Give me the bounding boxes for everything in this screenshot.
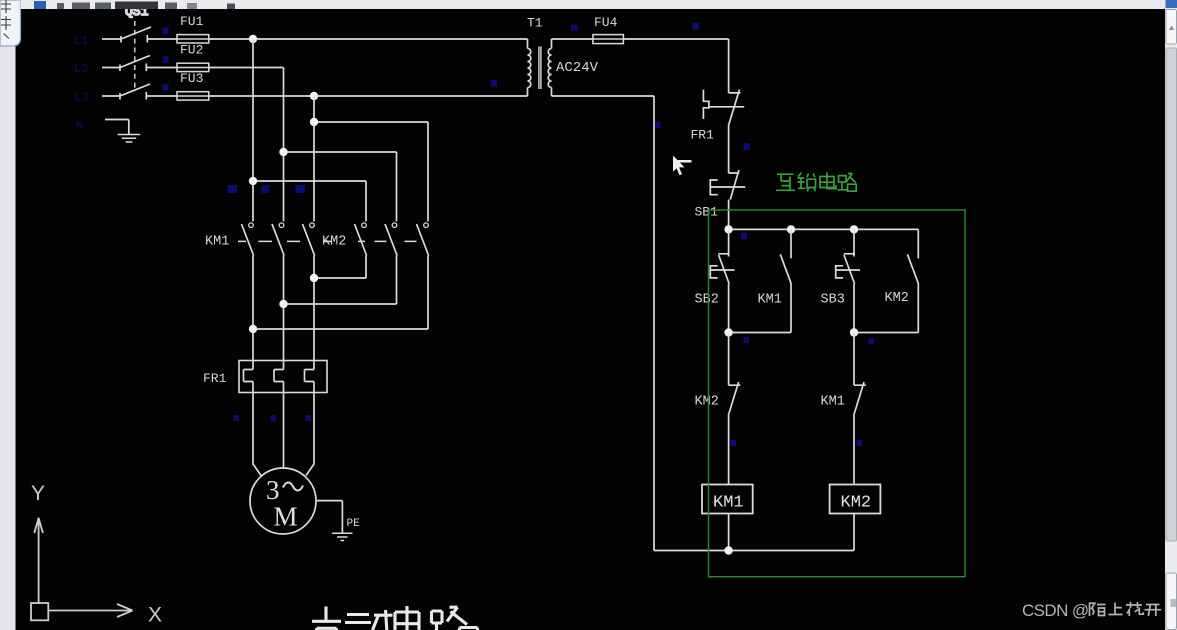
svg-text:KM2: KM2 <box>841 494 872 513</box>
contact KM1 aux NO <box>729 229 792 332</box>
svg-text:X: X <box>148 604 162 627</box>
contactor KM2 main contacts <box>355 223 429 256</box>
svg-text:KM1: KM1 <box>713 494 744 513</box>
svg-text:KM1: KM1 <box>758 293 782 308</box>
svg-text:PE: PE <box>347 518 361 530</box>
node dot SB2 bottom <box>724 328 732 336</box>
svg-text:M: M <box>274 502 298 532</box>
wire coil KM1 to bottom bus <box>728 514 730 551</box>
title text 点动电路 <box>312 606 478 630</box>
coil KM1 <box>702 485 753 514</box>
svg-text:L1: L1 <box>74 34 88 48</box>
wire branch L1 to KM2 pole4 <box>253 181 366 221</box>
transformer T1 secondary <box>548 39 551 96</box>
svg-text:FU2: FU2 <box>180 43 203 58</box>
svg-text:KM1: KM1 <box>205 235 229 250</box>
wire coil KM2 to bottom bus <box>853 514 855 551</box>
fuse FU2 <box>177 63 209 71</box>
grip marks (blue) <box>163 23 875 446</box>
svg-text:KM2: KM2 <box>885 291 909 306</box>
wire L2 to column2 <box>209 67 284 69</box>
svg-text:L2: L2 <box>74 62 88 76</box>
wire KM2 pole4 crossover to col3 <box>314 256 366 279</box>
wire secondary bottom return <box>552 96 655 551</box>
pushbutton SB3 <box>836 229 860 332</box>
svg-text:KM1: KM1 <box>821 395 845 410</box>
svg-text:CSDN @: CSDN @ <box>1022 601 1089 620</box>
svg-text:AC24V: AC24V <box>556 60 599 76</box>
svg-text:Y: Y <box>31 482 45 505</box>
svg-text:KM2: KM2 <box>695 395 719 410</box>
wire column1 <box>252 39 254 221</box>
svg-text:SB1: SB1 <box>695 205 719 220</box>
thermal relay contact FR1 <box>703 90 744 125</box>
contact KM1 interlock NC <box>854 333 866 485</box>
svg-text:3: 3 <box>266 475 280 505</box>
wire secondary top to FU4 <box>552 38 593 40</box>
mouse cursor <box>673 156 692 176</box>
svg-text:FU4: FU4 <box>594 15 618 30</box>
UCS origin square <box>31 603 48 620</box>
UI toolbar strip <box>21 0 1166 9</box>
disconnect switch QS1 <box>102 21 177 100</box>
watermark 陌上花开 <box>1090 602 1162 616</box>
wire KM2 pole5 crossover to col2 <box>284 256 397 305</box>
svg-text:SB2: SB2 <box>695 293 719 308</box>
bottom bus wire <box>654 550 854 552</box>
pushbutton SB2 <box>710 229 734 332</box>
mechanical link dashes <box>238 240 417 242</box>
wire col1 below contact <box>252 256 254 361</box>
wire motor PE <box>316 501 342 534</box>
ground PE <box>332 533 353 540</box>
wire KM2 pole6 crossover to col1 <box>253 256 428 330</box>
annotation green text 互锁电路 <box>776 172 856 191</box>
UCS icon X axis <box>48 604 132 617</box>
wire L3 to transformer <box>209 95 528 97</box>
transformer T1 primary <box>528 39 531 96</box>
node dot L3/col3 <box>310 92 318 100</box>
svg-text:FR1: FR1 <box>691 128 715 143</box>
svg-text:FU3: FU3 <box>180 71 203 86</box>
fuse FU4 <box>593 35 624 44</box>
wire column2 <box>283 68 285 222</box>
annotation green box 互锁电路 region <box>709 210 966 577</box>
svg-text:SB3: SB3 <box>821 293 845 308</box>
wire branch L3 to KM2 pole6 <box>314 122 428 221</box>
thermal overload FR1 block <box>239 361 327 393</box>
contact KM2 aux NO <box>854 229 919 332</box>
pushbutton SB1 <box>710 170 746 200</box>
svg-text:L3: L3 <box>74 91 88 105</box>
wire L1 to transformer <box>209 38 528 40</box>
wire FU4 to control branch <box>623 39 728 93</box>
wire col2 below contact <box>283 256 285 361</box>
wire SB1 to bus <box>728 200 730 230</box>
svg-text:FU1: FU1 <box>180 14 204 29</box>
UI scrollbar <box>1165 0 1177 630</box>
svg-text:N: N <box>76 119 83 133</box>
contactor KM1 main contacts <box>242 223 315 256</box>
wire branch L2 to KM2 pole5 <box>284 152 397 221</box>
UI properties tab <box>0 0 21 46</box>
node dot SB3 bottom <box>850 328 858 336</box>
wire N <box>105 120 129 135</box>
contact KM2 interlock NC <box>729 333 741 485</box>
node dot L1/col1 <box>249 35 257 43</box>
fuse FU3 <box>177 92 209 100</box>
svg-text:T1: T1 <box>527 16 543 31</box>
UI left panel strip <box>0 0 16 630</box>
wire FR1 to SB1 <box>728 125 730 174</box>
wire column3 <box>313 96 315 221</box>
transformer core <box>539 47 541 90</box>
UCS icon Y axis <box>31 518 133 621</box>
ground N <box>118 135 141 143</box>
wires FR1 to motor <box>253 393 314 476</box>
fuse FU1 <box>177 35 209 43</box>
control bus wire <box>729 228 919 230</box>
svg-text:FR1: FR1 <box>203 371 227 386</box>
motor M <box>250 468 316 534</box>
wire col3 below contact <box>313 256 315 361</box>
coil KM2 <box>830 485 881 514</box>
